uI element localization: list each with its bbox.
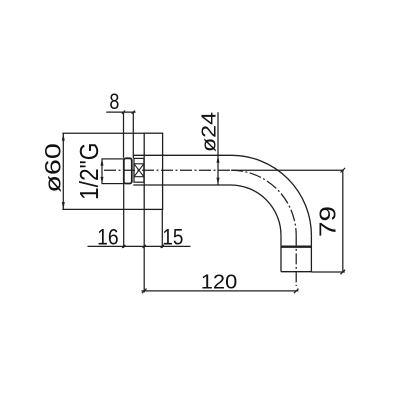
sleeve [124, 158, 132, 183]
connector body [134, 158, 144, 182]
spout left edge [280, 235, 282, 271]
dimension 79: bottom extension line [311, 271, 344, 273]
centerline horizontal axis [104, 169, 232, 171]
dimension 16/15: extension lines [123, 184, 125, 248]
wall flange [144, 133, 162, 209]
dimension 79: ticks [341, 168, 346, 173]
thread symbol box [134, 164, 144, 177]
svg-text:16: 16 [97, 224, 119, 249]
dimension o24: dimension line [217, 112, 219, 185]
spout bottom edge [281, 271, 311, 273]
tube top edge [133, 154, 231, 156]
bend inner arc [231, 185, 281, 235]
dimension o24: arrowheads [217, 155, 220, 162]
dimension 16/15: dimension line [88, 245, 191, 247]
svg-text:ø24: ø24 [198, 112, 220, 152]
dimension o60: extension lines [62, 132, 144, 134]
dimension o60: arrowheads [62, 133, 65, 140]
svg-text:79: 79 [314, 206, 340, 237]
bend outer arc [231, 155, 311, 235]
dimension 1/2G: arrowheads on nipple edge [101, 159, 104, 166]
dimension 120: ticks [142, 289, 147, 294]
centerline vertical axis [295, 235, 297, 286]
svg-text:1/2"G: 1/2"G [74, 143, 104, 201]
thread X mark [134, 164, 144, 177]
dimension 79: dimension line [342, 170, 344, 272]
svg-text:8: 8 [109, 89, 119, 114]
dimension o60: dimension line [62, 133, 64, 209]
dimension 8: extension lines [123, 112, 125, 158]
centerline bend arc [231, 170, 296, 235]
nipple 1/2G [102, 159, 124, 184]
centerline extension to 79 dimension [232, 169, 344, 171]
spout right edge [310, 235, 312, 271]
svg-text:ø60: ø60 [40, 143, 65, 193]
spout joint line [281, 246, 311, 248]
dimension 8: ticks [122, 111, 125, 114]
svg-text:15: 15 [162, 224, 183, 249]
svg-text:120: 120 [201, 272, 238, 294]
dimension 16/15: ticks [122, 245, 125, 248]
tube bottom edge [133, 184, 231, 186]
dimension 120: dimension line [142, 290, 299, 292]
dimension 8: dimension line [106, 111, 135, 113]
